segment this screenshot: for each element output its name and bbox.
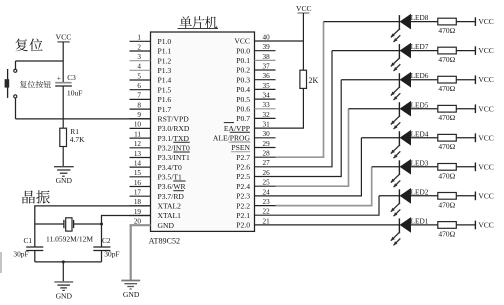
- wire LED6 to resistor: [411, 79, 438, 81]
- resistor R1: [60, 128, 67, 146]
- svg-text:P2.3: P2.3: [236, 192, 250, 201]
- svg-text:PSEN: PSEN: [231, 143, 250, 152]
- svg-text:10uF: 10uF: [67, 89, 83, 98]
- svg-text:P2.7: P2.7: [236, 153, 250, 162]
- svg-text:P0.5: P0.5: [236, 95, 250, 104]
- svg-text:VCC: VCC: [478, 17, 493, 26]
- capacitor C2: [93, 247, 110, 251]
- wire resistor to VCC (row 1): [456, 224, 475, 226]
- svg-text:4.7K: 4.7K: [70, 135, 85, 144]
- VCC terminal (row 3): [475, 162, 493, 171]
- VCC terminal (row 4): [475, 133, 493, 142]
- pin 39 stub (P0.0): [255, 50, 276, 52]
- svg-text:VCC: VCC: [478, 221, 493, 230]
- LED6 emission arrows: [391, 87, 401, 100]
- svg-text:12: 12: [134, 140, 142, 148]
- svg-text:P2.0: P2.0: [236, 221, 250, 230]
- wire P2.0 (pin 21) to LED1: [276, 224, 400, 226]
- wire P2.6 (pin 27) to LED7: [276, 51, 333, 167]
- svg-text:AT89C52: AT89C52: [149, 237, 180, 246]
- svg-text:33: 33: [263, 101, 271, 109]
- pin 12 stub (P3.2/INT0): [130, 147, 151, 149]
- pin 34 stub (P0.5): [255, 98, 276, 100]
- LED5 diode symbol: [399, 101, 411, 117]
- svg-text:11: 11: [134, 130, 141, 138]
- wire LED3 to resistor: [411, 166, 438, 168]
- wire P2.5 (pin 26) to LED6: [276, 80, 342, 177]
- svg-text:VCC: VCC: [478, 191, 493, 200]
- svg-text:470Ω: 470Ω: [438, 200, 455, 209]
- label 复位按钮: [20, 81, 27, 88]
- svg-text:C2: C2: [102, 236, 111, 245]
- pin 26 stub (P2.5): [255, 176, 276, 178]
- svg-text:ALE/PROG: ALE/PROG: [213, 134, 251, 143]
- LED2 emission arrows: [391, 203, 401, 216]
- svg-text:LED7: LED7: [411, 42, 429, 51]
- pin 20 stub (GND): [130, 224, 151, 226]
- wire P2.7 (pin 28) to LED8: [276, 22, 324, 158]
- LED4 emission arrows: [391, 145, 401, 158]
- wire crystal-left node down to C1: [34, 224, 36, 247]
- svg-text:P3.6/WR: P3.6/WR: [158, 182, 187, 191]
- pin 24 stub (P2.3): [255, 195, 276, 197]
- svg-text:GND: GND: [56, 176, 73, 185]
- wire resistor to VCC (row 2): [456, 195, 475, 197]
- svg-text:25: 25: [263, 179, 271, 187]
- resistor 470Ω (row 3): [438, 164, 457, 171]
- svg-text:P2.5: P2.5: [236, 172, 250, 181]
- svg-text:17: 17: [134, 189, 142, 197]
- svg-text:470Ω: 470Ω: [438, 113, 455, 122]
- wire LED2 to resistor: [411, 195, 438, 197]
- svg-text:LED2: LED2: [411, 187, 429, 196]
- wire resistor to VCC (row 6): [456, 79, 475, 81]
- svg-text:P3.5/T1: P3.5/T1: [158, 173, 182, 182]
- svg-text:2: 2: [137, 43, 141, 51]
- svg-text:470Ω: 470Ω: [438, 55, 455, 64]
- wire resistor to VCC (row 5): [456, 108, 475, 110]
- capacitor C1: [26, 247, 43, 251]
- svg-text:+: +: [57, 73, 61, 82]
- wire button top: [16, 60, 64, 62]
- svg-text:P1.4: P1.4: [158, 76, 172, 85]
- wire C1 to gnd bus: [34, 251, 36, 262]
- resistor 470Ω (row 2): [438, 193, 457, 200]
- svg-text:P0.4: P0.4: [236, 85, 250, 94]
- wire node down to C2: [101, 224, 103, 247]
- pin 4 stub (P1.3): [130, 69, 151, 71]
- resistor 470Ω (row 1): [438, 222, 457, 229]
- label 复位 (Reset): [15, 38, 28, 51]
- svg-text:VCC: VCC: [296, 4, 312, 13]
- capacitor C3 (polarized): [55, 73, 72, 86]
- svg-text:VCC: VCC: [478, 104, 493, 113]
- pin 6 stub (P1.5): [130, 89, 151, 91]
- pin 23 stub (P2.2): [255, 205, 276, 207]
- pin 1 stub (P1.0): [130, 40, 151, 42]
- wire node to XTAL1 (pin 19): [102, 216, 151, 225]
- wire bus to ground: [62, 262, 64, 282]
- svg-text:P0.0: P0.0: [236, 46, 250, 55]
- svg-text:P3.4/T0: P3.4/T0: [158, 163, 182, 172]
- wire GND pin 20: [131, 225, 151, 280]
- svg-text:XTAL2: XTAL2: [158, 202, 182, 211]
- pin 9 stub (RST/VPD): [130, 118, 151, 120]
- wire LED1 to resistor: [411, 224, 438, 226]
- svg-text:VCC: VCC: [478, 75, 493, 84]
- VCC terminal (row 7): [475, 46, 493, 55]
- pin 5 stub (P1.4): [130, 79, 151, 81]
- svg-text:P2.2: P2.2: [236, 201, 250, 210]
- wire C2 to gnd bus: [101, 251, 103, 262]
- pin 25 stub (P2.4): [255, 185, 276, 187]
- svg-text:30: 30: [263, 130, 271, 138]
- svg-text:P2.6: P2.6: [236, 163, 250, 172]
- pin 30 stub (ALE/PROG): [255, 137, 276, 139]
- svg-text:LED6: LED6: [411, 71, 429, 80]
- svg-text:P2.1: P2.1: [236, 211, 250, 220]
- pin 13 stub (P3.3/INT1): [130, 157, 151, 159]
- svg-text:VCC: VCC: [478, 162, 493, 171]
- svg-text:27: 27: [263, 159, 271, 167]
- wire RST row (button to pin 9): [16, 118, 151, 120]
- svg-text:P0.7: P0.7: [236, 114, 250, 123]
- svg-text:P1.2: P1.2: [158, 56, 172, 65]
- svg-text:11.0592M/12M: 11.0592M/12M: [46, 235, 93, 244]
- left edge scan artifact: [0, 252, 2, 273]
- svg-text:P3.2/INT0: P3.2/INT0: [158, 144, 190, 153]
- resistor 470Ω (row 8): [438, 18, 457, 25]
- svg-text:470Ω: 470Ω: [438, 84, 455, 93]
- VCC terminal (row 2): [475, 191, 493, 200]
- svg-text:28: 28: [263, 150, 271, 158]
- resistor 470Ω (row 4): [438, 134, 457, 141]
- svg-text:36: 36: [263, 72, 271, 80]
- resistor R2 2K: [300, 70, 307, 88]
- svg-text:C1: C1: [24, 236, 33, 245]
- svg-text:39: 39: [263, 43, 271, 51]
- VCC terminal (row 6): [475, 75, 493, 84]
- wire R1 to GND: [62, 147, 64, 167]
- wire crystal left: [35, 223, 64, 225]
- push button S1 复位按钮: [5, 61, 17, 119]
- svg-text:1: 1: [137, 34, 141, 42]
- label 晶振 (Crystal osc): [23, 190, 35, 203]
- svg-text:29: 29: [263, 140, 271, 148]
- wire LED5 to resistor: [411, 108, 438, 110]
- pin 31 stub (EA/VPP): [255, 127, 276, 129]
- svg-text:26: 26: [263, 169, 271, 177]
- svg-text:C3: C3: [67, 73, 76, 82]
- svg-text:RST/VPD: RST/VPD: [158, 114, 190, 123]
- pin 33 stub (P0.6): [255, 108, 276, 110]
- IC body U1 AT89C52: [151, 32, 255, 231]
- wire LED8 to resistor: [411, 21, 438, 23]
- pin 18 stub (XTAL2): [130, 205, 151, 207]
- svg-text:VCC: VCC: [478, 133, 493, 142]
- wire resistor to VCC (row 7): [456, 50, 475, 52]
- pin 7 stub (P1.6): [130, 98, 151, 100]
- wire crystal right to node: [74, 223, 102, 225]
- gnd bus wire: [35, 261, 102, 263]
- pin 21 stub (P2.0): [255, 224, 276, 226]
- pin 19 stub (XTAL1): [130, 215, 151, 217]
- pin 38 stub (P0.1): [255, 59, 276, 61]
- wire resistor to VCC (row 8): [456, 21, 475, 23]
- pin 28 stub (P2.7): [255, 156, 276, 158]
- wire VCC stem to C3: [62, 42, 64, 83]
- VCC symbol (EA pull-up): [296, 4, 312, 13]
- node junction (crystal/XTAL1/C2): [100, 223, 103, 226]
- svg-text:40: 40: [263, 33, 271, 41]
- svg-text:38: 38: [263, 53, 271, 61]
- pin 35 stub (P0.4): [255, 88, 276, 90]
- bus junction dot: [62, 260, 65, 263]
- svg-text:18: 18: [134, 198, 142, 206]
- wire P2.3 (pin 24) to LED4: [276, 138, 362, 196]
- VCC terminal (row 1): [475, 221, 493, 230]
- ground (reset): [54, 167, 74, 186]
- svg-text:P3.7/RD: P3.7/RD: [158, 192, 185, 201]
- svg-text:32: 32: [263, 111, 271, 119]
- LED1 emission arrows: [391, 232, 401, 245]
- svg-text:6: 6: [137, 82, 141, 90]
- wire pin 40 to VCC line: [276, 40, 304, 42]
- svg-text:13: 13: [134, 150, 142, 158]
- svg-text:37: 37: [263, 62, 271, 70]
- svg-text:470Ω: 470Ω: [438, 26, 455, 35]
- svg-text:P2.4: P2.4: [236, 182, 250, 191]
- wire LED7 to resistor: [411, 50, 438, 52]
- PROG underline artifact: [229, 141, 251, 143]
- pin 2 stub (P1.1): [130, 50, 151, 52]
- LED8 emission arrows: [391, 29, 401, 42]
- svg-text:XTAL1: XTAL1: [158, 211, 182, 220]
- svg-text:P3.0/RXD: P3.0/RXD: [158, 124, 190, 133]
- pin 14 stub (P3.4/T0): [130, 166, 151, 168]
- LED3 emission arrows: [391, 174, 401, 187]
- wire P2.4 (pin 25) to LED5: [276, 109, 349, 187]
- svg-text:EA/VPP: EA/VPP: [224, 124, 250, 133]
- ground (crystal): [54, 282, 73, 301]
- pin 40 stub (VCC): [255, 40, 276, 42]
- svg-text:VCC: VCC: [478, 46, 493, 55]
- resistor 470Ω (row 5): [438, 105, 457, 112]
- svg-text:470Ω: 470Ω: [438, 142, 455, 151]
- ground (pin 20): [121, 281, 140, 299]
- svg-text:LED1: LED1: [411, 217, 429, 226]
- LED1 diode symbol: [399, 217, 411, 233]
- wire resistor to VCC (row 3): [456, 166, 475, 168]
- LED2 diode symbol: [399, 188, 411, 204]
- svg-text:2K: 2K: [309, 76, 319, 85]
- svg-text:P1.3: P1.3: [158, 66, 172, 75]
- svg-text:21: 21: [263, 217, 271, 225]
- svg-text:P3.3/INT1: P3.3/INT1: [158, 153, 190, 162]
- svg-text:9: 9: [137, 111, 141, 119]
- svg-text:GND: GND: [158, 221, 175, 230]
- svg-text:GND: GND: [123, 290, 140, 299]
- crystal Y1: [64, 218, 74, 231]
- svg-text:35: 35: [263, 82, 271, 90]
- svg-text:VCC: VCC: [55, 33, 71, 42]
- VCC terminal (row 5): [475, 104, 493, 113]
- svg-text:LED5: LED5: [411, 100, 429, 109]
- LED6 diode symbol: [399, 72, 411, 88]
- svg-text:P0.2: P0.2: [236, 66, 250, 75]
- VCC terminal (row 8): [475, 17, 493, 26]
- pin 37 stub (P0.2): [255, 69, 276, 71]
- wire resistor to VCC (row 4): [456, 137, 475, 139]
- svg-text:GND: GND: [56, 291, 73, 300]
- svg-text:P0.6: P0.6: [236, 105, 250, 114]
- svg-text:8: 8: [137, 101, 141, 109]
- PSEN underline artifact: [231, 151, 250, 153]
- svg-text:P3.1/TXD: P3.1/TXD: [158, 134, 190, 143]
- resistor 470Ω (row 6): [438, 76, 457, 83]
- svg-text:P1.5: P1.5: [158, 85, 172, 94]
- svg-text:15: 15: [134, 169, 142, 177]
- svg-text:10: 10: [134, 121, 142, 129]
- pin 17 stub (P3.7/RD): [130, 195, 151, 197]
- svg-text:34: 34: [263, 92, 271, 100]
- wire XTAL2 (pin 18) to crystal left: [35, 206, 151, 224]
- pin 3 stub (P1.2): [130, 60, 151, 62]
- svg-text:P1.1: P1.1: [158, 47, 172, 56]
- svg-text:14: 14: [134, 159, 142, 167]
- svg-text:P0.3: P0.3: [236, 75, 250, 84]
- svg-text:P1.7: P1.7: [158, 105, 172, 114]
- pin 29 stub (PSEN): [255, 147, 276, 149]
- wire C3 to RST node: [62, 86, 64, 128]
- svg-text:7: 7: [137, 92, 141, 100]
- LED5 emission arrows: [391, 116, 401, 129]
- wire P2.2 (pin 23) to LED3: [276, 167, 372, 206]
- pin 11 stub (P3.1/TXD): [130, 137, 151, 139]
- svg-text:LED8: LED8: [411, 13, 429, 22]
- wire 2K to pin 31 EA/VPP: [276, 88, 304, 128]
- LED7 diode symbol: [399, 43, 411, 59]
- wire LED4 to resistor: [411, 137, 438, 139]
- LED4 diode symbol: [399, 130, 411, 146]
- LED8 diode symbol: [399, 14, 411, 30]
- svg-text:16: 16: [134, 179, 142, 187]
- svg-text:P0.1: P0.1: [236, 56, 250, 65]
- svg-text:LED4: LED4: [411, 129, 429, 138]
- svg-text:VCC: VCC: [234, 37, 250, 46]
- pin 27 stub (P2.6): [255, 166, 276, 168]
- resistor 470Ω (row 7): [438, 47, 457, 54]
- pin 8 stub (P1.7): [130, 108, 151, 110]
- IC title 单片机: [178, 16, 219, 28]
- svg-text:30pF: 30pF: [104, 250, 119, 259]
- svg-text:23: 23: [263, 198, 271, 206]
- pin 16 stub (P3.6/WR): [130, 186, 151, 188]
- pin 15 stub (P3.5/T1): [130, 176, 151, 178]
- svg-text:470Ω: 470Ω: [438, 171, 455, 180]
- pin 10 stub (P3.0/RXD): [130, 127, 151, 129]
- svg-text:5: 5: [137, 72, 141, 80]
- svg-text:31: 31: [263, 121, 271, 129]
- LED3 diode symbol: [399, 159, 411, 175]
- wire P2.1 (pin 22) to LED2: [276, 196, 380, 215]
- pin 22 stub (P2.1): [255, 214, 276, 216]
- svg-text:4: 4: [137, 63, 141, 71]
- pin 32 stub (P0.7): [255, 117, 276, 119]
- svg-text:24: 24: [263, 188, 271, 196]
- svg-text:P1.0: P1.0: [158, 37, 172, 46]
- svg-text:3: 3: [137, 53, 141, 61]
- wire VCC to pin40 node: [302, 13, 304, 70]
- svg-text:22: 22: [263, 208, 271, 216]
- LED7 emission arrows: [391, 58, 401, 71]
- svg-text:P1.6: P1.6: [158, 95, 172, 104]
- svg-text:LED3: LED3: [411, 158, 429, 167]
- svg-text:19: 19: [134, 208, 142, 216]
- pin 36 stub (P0.3): [255, 79, 276, 81]
- svg-text:470Ω: 470Ω: [438, 229, 455, 238]
- svg-text:30pF: 30pF: [13, 250, 28, 259]
- VCC symbol (reset): [55, 33, 71, 42]
